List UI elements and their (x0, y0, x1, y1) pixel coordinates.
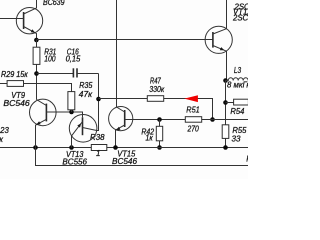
node VT13 emitter rail (69, 145, 74, 150)
node emitter VT11 (34, 38, 39, 43)
inductor L3 (226, 78, 249, 81)
transistor VT13 (69, 115, 97, 148)
svg-text:BC546: BC546 (3, 99, 30, 108)
transistor VT9 (30, 99, 57, 147)
svg-text:BC546: BC546 (112, 157, 138, 166)
node C16 R47 (96, 97, 101, 102)
wire rail1 right (107, 147, 248, 149)
svg-text:8 мкГн: 8 мкГн (227, 81, 248, 90)
svg-text:2SC: 2SC (232, 14, 248, 23)
wire rail1 left (0, 147, 91, 149)
red arrow probe (184, 95, 198, 102)
node R51 out (210, 117, 215, 122)
wire R29 to R35 (24, 84, 72, 92)
capacitor C16 (37, 68, 99, 77)
node R42 top (157, 117, 162, 122)
svg-text:33: 33 (232, 135, 242, 144)
wire C16 to VT13 collector (97, 74, 99, 131)
svg-text:270: 270 (187, 124, 200, 133)
svg-text:BC639: BC639 (43, 0, 65, 7)
node R31 C16 (34, 71, 39, 76)
transistor VT15 (109, 0, 133, 148)
wire output line (213, 119, 249, 121)
wire VT9 base to VT13 (46, 112, 82, 117)
resistor R35 (68, 92, 75, 112)
resistor R38 (91, 145, 107, 151)
transistor VT12 (205, 0, 232, 80)
resistor R55 (222, 125, 229, 148)
svg-text:L3: L3 (234, 66, 242, 75)
wire R47 input (99, 98, 148, 100)
svg-text:R23: R23 (0, 126, 9, 135)
svg-text:0,15: 0,15 (66, 55, 81, 64)
svg-text:R54: R54 (230, 107, 245, 116)
svg-text:R51: R51 (186, 105, 199, 114)
node R55 rail (223, 145, 228, 150)
svg-text:R29 15к: R29 15к (1, 70, 28, 79)
node R42 bottom (157, 145, 162, 150)
wire rail to VT12 base (36, 39, 213, 41)
node L3 (223, 78, 228, 83)
resistor R31 (33, 40, 40, 100)
svg-text:R38: R38 (90, 133, 105, 142)
resistor R54 (226, 99, 249, 105)
svg-text:1к: 1к (145, 134, 153, 143)
svg-text:100: 100 (44, 55, 56, 64)
svg-text:BC556: BC556 (62, 157, 87, 166)
resistor R47 (147, 96, 163, 102)
transistor VT11 BC639 (16, 0, 42, 40)
wire rail2 (36, 148, 249, 166)
node VT15 emitter rail (113, 145, 118, 150)
wire R47 to corner (164, 99, 213, 120)
node VT9 emitter rail (33, 145, 38, 150)
node R35 bottom (69, 110, 74, 115)
wire VT15 base to R51 (125, 119, 186, 121)
resistor R51 (185, 117, 212, 123)
node R54 (223, 100, 228, 105)
svg-text:330к: 330к (149, 85, 164, 94)
svg-text:47к: 47к (79, 90, 93, 99)
svg-text:R: R (246, 155, 248, 164)
svg-text:к: к (0, 135, 3, 144)
resistor R42 (156, 120, 162, 148)
svg-text:1: 1 (96, 149, 100, 158)
wire L3 node to R55 (225, 81, 227, 125)
svg-text:R35: R35 (79, 81, 93, 90)
resistor R29 (0, 81, 24, 87)
wire base VT11 (0, 18, 24, 20)
